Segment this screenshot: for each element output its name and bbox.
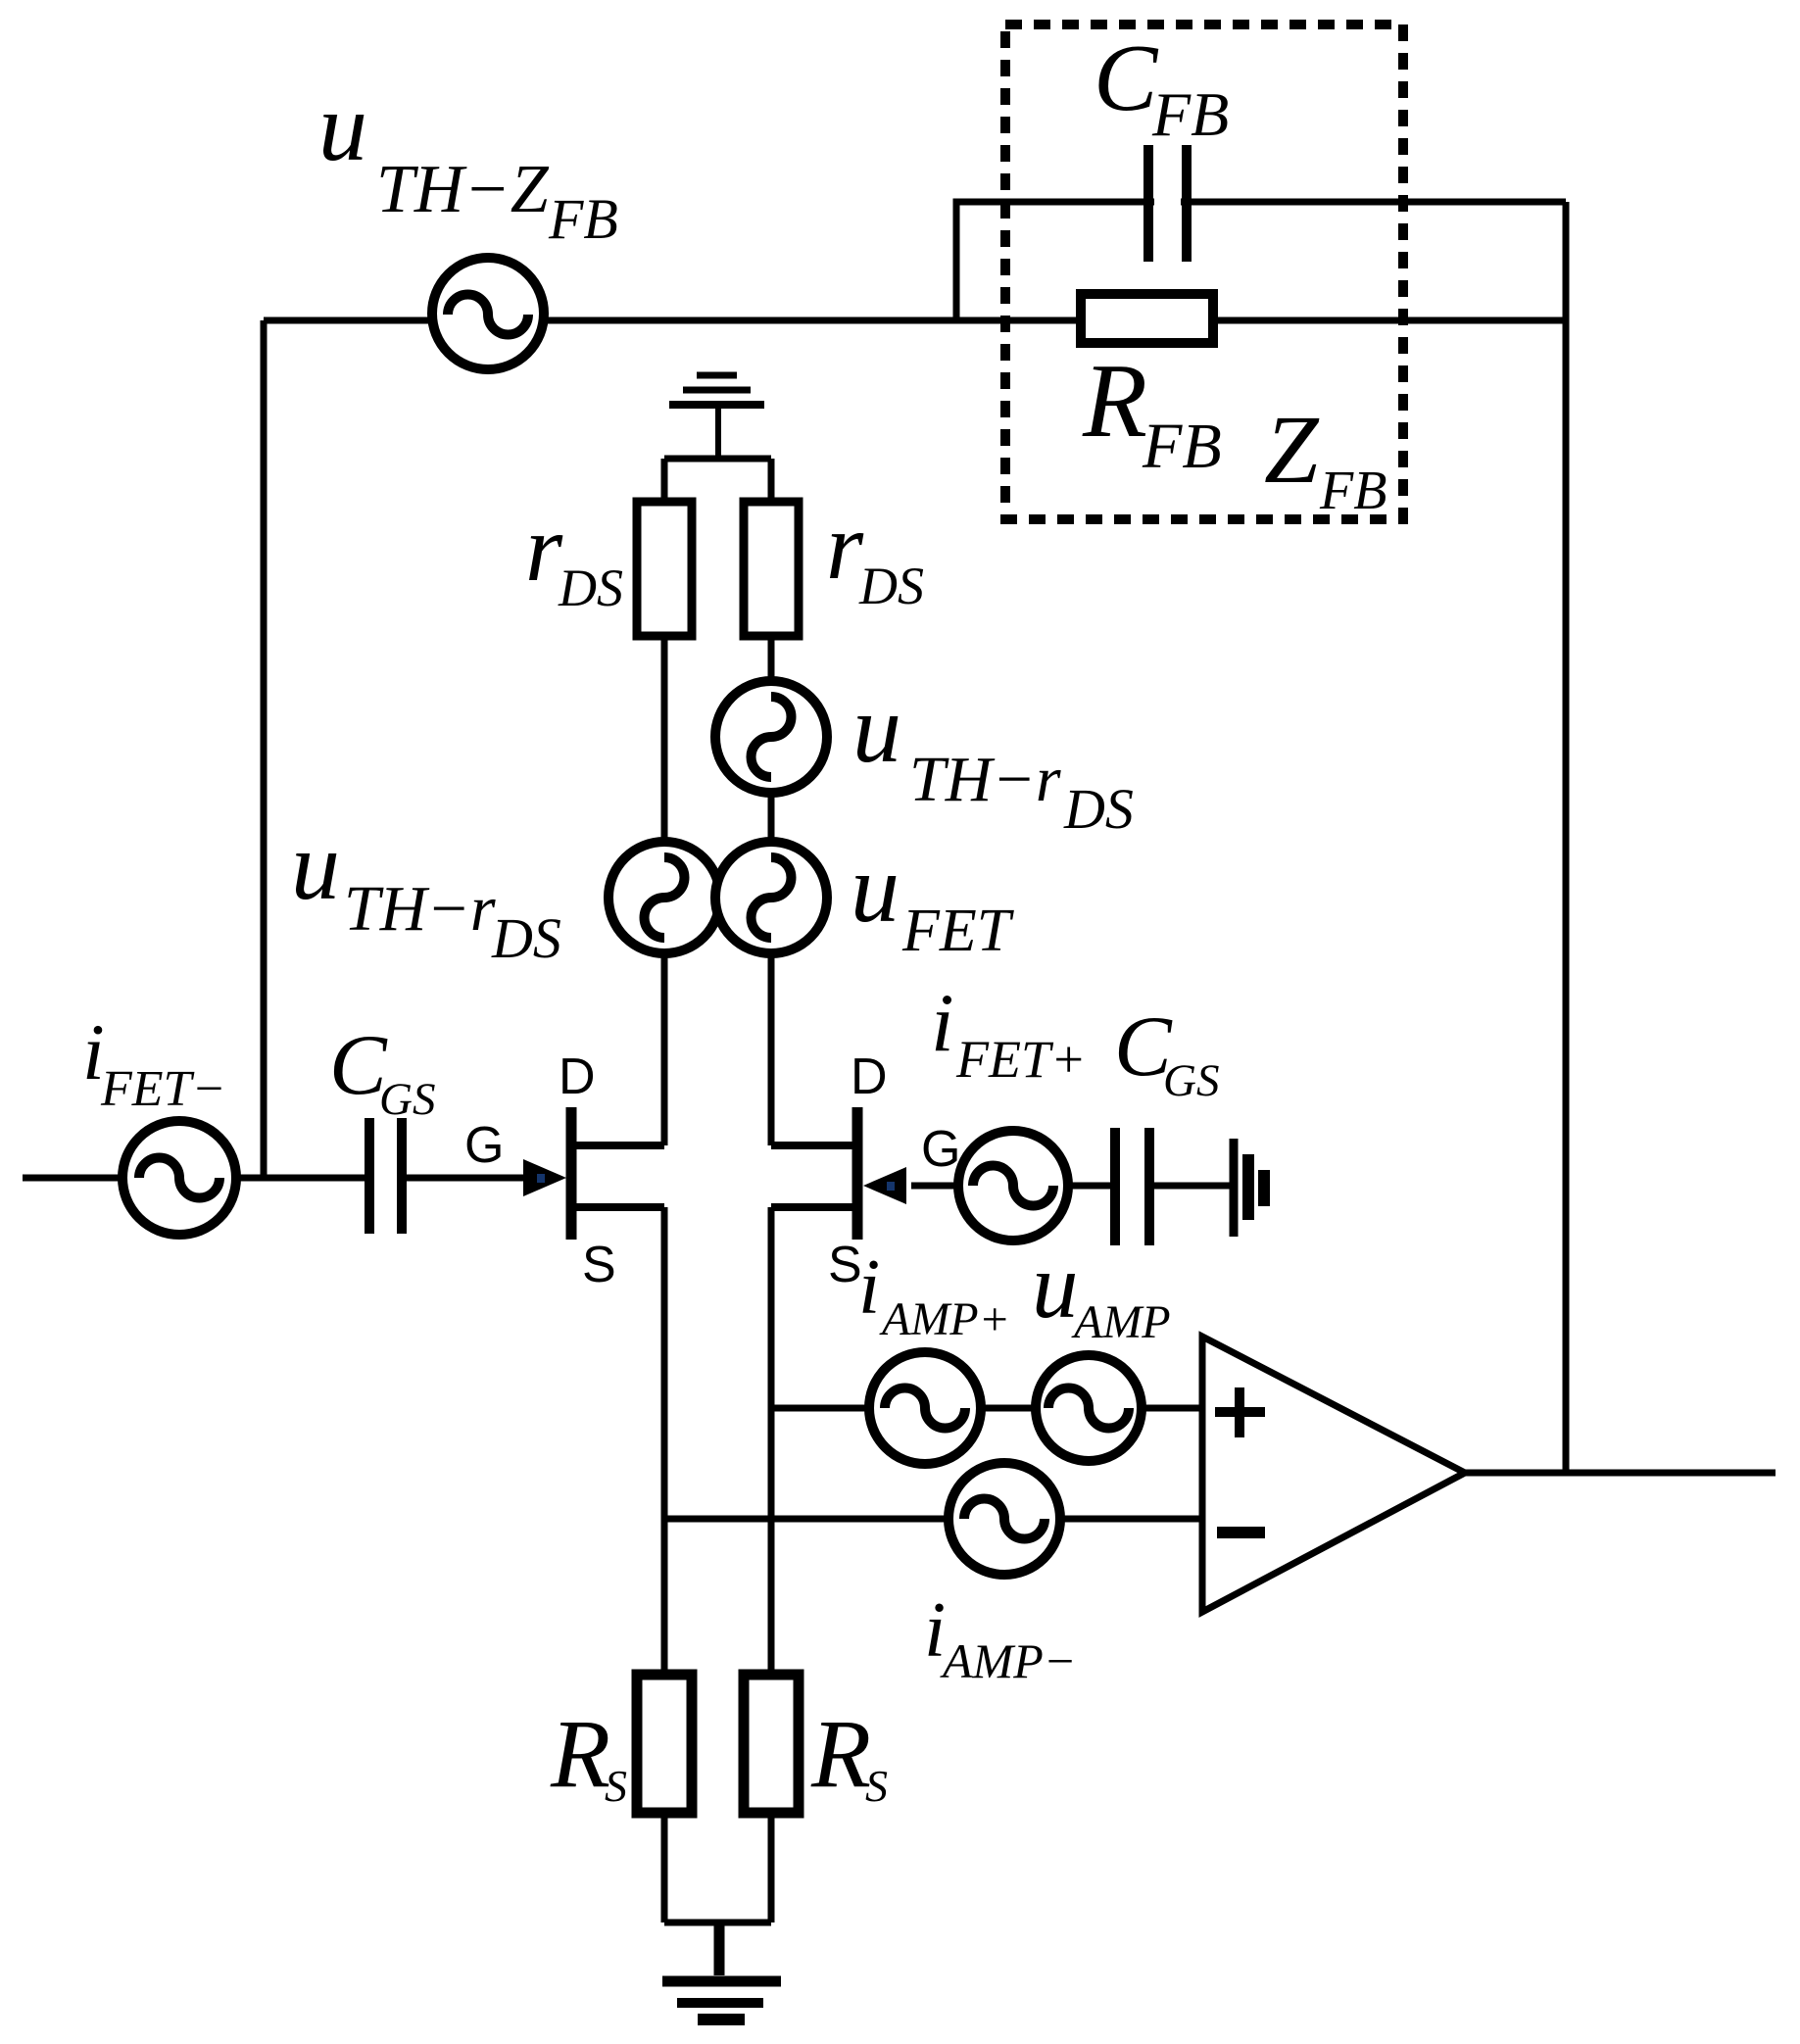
capacitor C_GS left (369, 1118, 402, 1234)
source u_AMP (1036, 1355, 1142, 1461)
wire below R_S right (768, 1813, 775, 1922)
capacitor C_GS right (1115, 1128, 1149, 1245)
transistor left FET (571, 1107, 664, 1240)
svg-text:u: u (851, 834, 900, 943)
svg-text:G: G (464, 1117, 504, 1174)
label R_S left (550, 1699, 627, 1811)
svg-text:R: R (550, 1699, 610, 1808)
label i_FET- (82, 1007, 226, 1117)
wire bottom bar (664, 1920, 771, 1926)
svg-text:S: S (865, 1761, 888, 1811)
wire i_FET+ to C_GS right (1068, 1183, 1115, 1190)
wire stem to top ground (715, 404, 721, 459)
label u_TH-rDS left (291, 811, 561, 970)
source i_AMP- (949, 1463, 1060, 1575)
label r_DS left (525, 496, 623, 617)
svg-text:S: S (828, 1237, 862, 1293)
svg-text:C: C (1094, 25, 1159, 131)
ground top (inverted) (669, 375, 764, 405)
svg-text:i: i (931, 977, 954, 1069)
resistor R_S right (744, 1675, 799, 1813)
wire top bar between branches (664, 456, 771, 462)
label u_TH-Z_FB (318, 73, 618, 251)
gate arrow right FET (863, 1167, 906, 1204)
resistor r_DS right (744, 502, 799, 636)
ground right (sideways) (1234, 1139, 1264, 1237)
svg-text:DS: DS (491, 906, 561, 970)
svg-text:u: u (318, 73, 367, 181)
source i_FET+ (958, 1131, 1068, 1241)
svg-text:GS: GS (379, 1074, 435, 1125)
resistor R_S left (637, 1675, 692, 1813)
svg-text:i: i (858, 1244, 880, 1331)
svg-text:DS: DS (1063, 777, 1134, 841)
svg-text:S: S (582, 1237, 616, 1293)
wire op-amp output (1465, 1470, 1776, 1477)
svg-text:AMP: AMP (1071, 1296, 1171, 1348)
svg-text:u: u (852, 674, 901, 783)
wire drain left branch (661, 459, 668, 1145)
svg-text:G: G (921, 1121, 960, 1178)
wire source right branch (768, 1207, 775, 1675)
resistor R_FB (1081, 294, 1213, 343)
svg-text:TH−r: TH−r (344, 873, 496, 945)
svg-text:u: u (1032, 1234, 1079, 1338)
svg-text:FB: FB (1142, 411, 1222, 482)
svg-text:u: u (291, 811, 340, 920)
pin labels left FET (464, 1048, 616, 1293)
svg-text:S: S (605, 1761, 627, 1811)
svg-text:D: D (851, 1048, 888, 1105)
svg-text:FET: FET (901, 898, 1015, 964)
wire gate right (911, 1183, 958, 1190)
svg-text:DS: DS (558, 559, 623, 617)
gate arrow left FET (523, 1159, 566, 1196)
label u_FET (851, 834, 1015, 964)
label C_FB (1094, 25, 1229, 149)
svg-text:Z: Z (1264, 395, 1320, 504)
label i_AMP- (924, 1587, 1076, 1688)
wire capacitor feedback branch (956, 202, 1566, 320)
source u_FET lower right branch (715, 842, 827, 953)
wire right vertical feedback (1563, 202, 1570, 1473)
wire C_GS right to ground (1149, 1183, 1234, 1190)
label R_S right (810, 1699, 888, 1811)
svg-text:AMP+: AMP+ (879, 1293, 1010, 1345)
source u_TH-Z_FB (432, 258, 544, 369)
source i_AMP+ (869, 1352, 981, 1464)
op-amp U1 (1202, 1337, 1465, 1612)
resistor r_DS left (637, 502, 692, 636)
svg-text:FB: FB (548, 187, 618, 251)
wire minus input line (664, 1516, 1202, 1523)
svg-text:R: R (1082, 343, 1147, 460)
label R_FB (1082, 343, 1222, 482)
wire left vertical (261, 320, 268, 1178)
wire input horizontal left (23, 1175, 365, 1182)
pin labels right FET (828, 1048, 960, 1293)
wire drain right branch (768, 459, 775, 1145)
wire plus input line (771, 1405, 1202, 1412)
svg-text:FET−: FET− (100, 1061, 226, 1117)
label i_FET+ (931, 977, 1086, 1089)
transistor right FET (771, 1107, 857, 1240)
svg-text:DS: DS (858, 557, 924, 615)
source u_TH-rDS upper right branch (715, 681, 827, 793)
svg-text:GS: GS (1163, 1055, 1219, 1106)
svg-text:D: D (559, 1048, 596, 1105)
label r_DS right (826, 494, 924, 615)
capacitor C_FB (1154, 186, 1181, 218)
source i_FET- (122, 1121, 236, 1235)
label i_AMP+ (858, 1244, 1010, 1345)
label Z_FB (1264, 395, 1386, 521)
svg-text:TH−Z: TH−Z (376, 152, 550, 227)
svg-text:FB: FB (1151, 79, 1229, 149)
label C_GS left (329, 1018, 435, 1125)
svg-text:AMP−: AMP− (940, 1633, 1076, 1688)
wire below R_S left (661, 1813, 668, 1922)
source u_TH-rDS lower left branch (608, 842, 720, 953)
svg-text:FET+: FET+ (955, 1030, 1086, 1089)
svg-text:FB: FB (1319, 461, 1386, 521)
wire gate left (402, 1175, 529, 1182)
label u_AMP (1032, 1234, 1171, 1348)
wire stem to bottom ground (714, 1922, 725, 1975)
wire source left branch (661, 1207, 668, 1675)
wire top horizontal (264, 317, 1566, 324)
dashed box Z_FB (1005, 24, 1403, 519)
label C_GS right (1114, 999, 1219, 1106)
svg-text:TH−r: TH−r (909, 744, 1061, 815)
svg-text:R: R (810, 1699, 871, 1808)
ground bottom (662, 1981, 781, 2020)
label u_TH-rDS right (852, 674, 1134, 841)
